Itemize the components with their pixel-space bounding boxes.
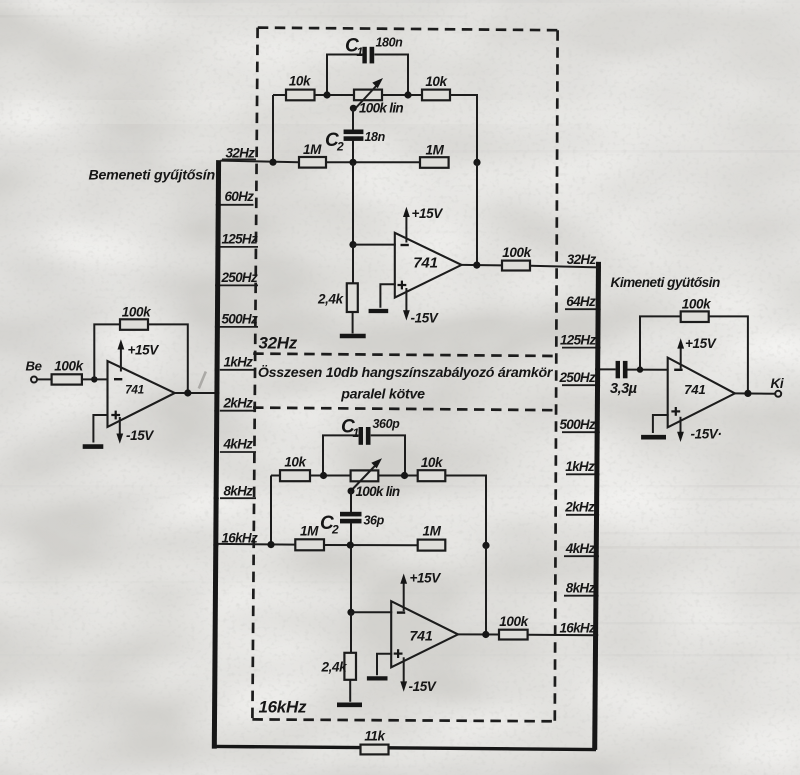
wire Be to R100k: [37, 378, 52, 380]
svg-text:Ki: Ki: [771, 376, 784, 391]
wire C2 to 1M row (16kHz): [350, 523, 352, 545]
svg-text:-15V: -15V: [126, 428, 154, 443]
wire 10k right to right riser: [450, 95, 477, 162]
wire pot row left: [273, 94, 286, 96]
wire output bus to C 3,3µ: [598, 368, 616, 370]
svg-text:2kHz: 2kHz: [223, 396, 254, 411]
wire feedback right riser to output node: [709, 316, 748, 393]
+15V supply arrow (16kHz): [400, 571, 441, 612]
node output bus at 3,3µ row: [595, 367, 600, 372]
node at inverting input: [91, 376, 97, 382]
output bus tap 32Hz: [567, 252, 601, 270]
svg-text:16kHz: 16kHz: [559, 621, 595, 636]
wire inverting node down to R 2,4k (16kHz): [350, 612, 352, 653]
svg-text:1M: 1M: [300, 524, 319, 539]
op-amp U4 741 (output buffer): [668, 358, 735, 428]
input bus tap 32Hz: [222, 146, 256, 161]
wire pot to 10k right: [382, 94, 422, 96]
ground (output buffer +in): [641, 435, 666, 440]
svg-text:1M: 1M: [426, 143, 445, 158]
dashed enclosure top edge: [258, 28, 558, 31]
svg-text:Összesen 10db hangszínszabályo: Összesen 10db hangszínszabályozó áramkör: [258, 364, 554, 381]
resistor R 1M (right, 32Hz): [420, 143, 449, 168]
dashed divider above 16kHz block: [253, 408, 556, 411]
svg-text:500Hz: 500Hz: [559, 417, 595, 432]
wire C1 loop left riser (16kHz): [323, 435, 359, 475]
stray pencil mark near input bus: [199, 372, 206, 389]
node output / right riser join (32Hz): [473, 262, 480, 269]
svg-text:Bemeneti gyűjtősín: Bemeneti gyűjtősín: [89, 168, 216, 184]
svg-text:2: 2: [331, 523, 339, 537]
op-amp U3 741 (16kHz): [391, 601, 458, 667]
svg-text:-15V: -15V: [411, 311, 439, 326]
wire right riser to op-amp output node: [476, 162, 478, 265]
svg-text:1M: 1M: [423, 524, 442, 539]
capacitor C 3,3µ: [610, 361, 638, 397]
resistor R 11k: [361, 729, 389, 755]
ground (16kHz 2,4k): [337, 702, 362, 707]
capacitor C2 18n (32Hz): [325, 108, 386, 153]
svg-text:+15V: +15V: [685, 336, 717, 351]
svg-text:+15V: +15V: [128, 343, 160, 358]
-15V supply arrow (16kHz): [400, 657, 437, 694]
input bus tap 125Hz: [215, 232, 258, 250]
svg-text:1kHz: 1kHz: [224, 355, 254, 370]
op-amp U2 741 (32Hz): [395, 233, 462, 298]
node inverting input (16kHz): [347, 609, 354, 616]
wire 2,4k to ground (16kHz): [349, 680, 351, 702]
op-amp U1 741 (input buffer): [108, 361, 175, 427]
output bus tap 64Hz: [565, 294, 601, 312]
+15V supply arrow (32Hz): [403, 206, 443, 243]
wire inverting node down to R 2,4k: [352, 245, 354, 284]
+15V supply arrow (output buffer): [677, 336, 716, 369]
input bus tap 60Hz: [216, 189, 254, 207]
svg-text:125Hz: 125Hz: [560, 333, 596, 348]
svg-text:32Hz: 32Hz: [567, 252, 597, 267]
node at output / feedback join: [184, 389, 191, 396]
svg-text:100k lin: 100k lin: [359, 101, 403, 116]
svg-text:250Hz: 250Hz: [221, 270, 258, 285]
wire op-amp output to Ki terminal: [735, 392, 776, 394]
node input bus at buffer output: [214, 390, 219, 395]
wire op-amp output to input bus: [175, 392, 218, 394]
resistor R 2,4k (32Hz): [317, 283, 358, 312]
wire op-amp output to R 100k (16kHz): [458, 633, 499, 635]
svg-text:100k lin: 100k lin: [356, 484, 400, 499]
resistor R 1M (left, 32Hz): [299, 142, 326, 168]
input bus tap 2kHz: [214, 396, 254, 414]
resistor R 10k (left, 16kHz): [280, 455, 310, 482]
wire non-inverting input to ground (output buffer): [653, 415, 669, 433]
node C1/pot right: [404, 91, 411, 98]
resistor R 10k (right, 16kHz): [418, 455, 446, 481]
svg-text:100k: 100k: [122, 305, 152, 320]
input bus tap 4kHz: [214, 437, 256, 455]
output bus tap 1kHz: [565, 459, 599, 477]
wire pot row left (16kHz): [271, 475, 280, 477]
input bus (thick vertical): [214, 160, 218, 748]
svg-text:10k: 10k: [425, 74, 448, 89]
svg-text:4kHz: 4kHz: [565, 541, 596, 556]
output bus tap 8kHz: [564, 581, 599, 599]
potentiometer P 100k lin (16kHz): [348, 458, 400, 499]
resistor R 100k (output feedback): [681, 297, 712, 323]
wire C2 node down to inverting input: [352, 162, 354, 244]
input terminal Be: [26, 359, 42, 383]
wire inverting node to op-amp (16kHz): [351, 611, 392, 613]
wire inverting node to op-amp: [353, 244, 396, 246]
wire C1 loop right riser: [374, 55, 408, 96]
potentiometer P 100k lin (32Hz): [350, 78, 404, 116]
node at inverting input (output buffer): [637, 366, 643, 372]
wire non-inverting input to ground: [93, 415, 108, 443]
output bus (thick vertical): [595, 262, 599, 750]
svg-text:1: 1: [357, 45, 364, 59]
resistor R 10k (left, 32Hz): [286, 74, 315, 101]
svg-text:2,4k: 2,4k: [321, 660, 349, 675]
wire 10k right to right riser (16kHz): [445, 476, 486, 546]
svg-text:741: 741: [409, 629, 432, 645]
dashed enclosure left edge: [252, 28, 257, 720]
dashed divider below 32Hz block: [253, 354, 556, 356]
svg-text:8kHz: 8kHz: [224, 484, 254, 499]
wire C2 to 1M row: [352, 140, 354, 162]
svg-text:360p: 360p: [373, 417, 401, 431]
output bus tap 4kHz: [564, 541, 599, 559]
svg-text:500Hz: 500Hz: [222, 312, 258, 327]
bottom rail right segment: [389, 748, 597, 750]
svg-text:741: 741: [413, 255, 437, 272]
wire 10k to pot (16kHz): [310, 475, 351, 477]
svg-text:8kHz: 8kHz: [566, 581, 596, 596]
wire 10k to pot: [315, 94, 355, 96]
node output / right riser join (16kHz): [482, 631, 489, 638]
svg-text:11k: 11k: [364, 729, 386, 744]
wire pot to 10k right (16kHz): [378, 475, 417, 477]
wire feedback right riser to output: [148, 324, 188, 393]
svg-text:60Hz: 60Hz: [225, 189, 255, 204]
svg-text:32Hz: 32Hz: [259, 334, 298, 353]
resistor R 100k (32Hz out): [502, 245, 533, 271]
svg-text:+15V: +15V: [412, 206, 444, 221]
svg-text:100k: 100k: [499, 614, 529, 629]
node inverting input (32Hz): [349, 241, 356, 248]
wire left riser pot row to 1M row: [272, 95, 274, 162]
-15V supply arrow (output buffer): [677, 417, 721, 442]
ground (32Hz 2,4k): [340, 334, 366, 339]
svg-text:100k: 100k: [54, 359, 84, 374]
node 32Hz tap riser join: [269, 159, 276, 166]
svg-text:2: 2: [336, 140, 344, 154]
node 1M right / right riser (16kHz): [482, 542, 489, 549]
node at output / feedback join (output buffer): [744, 390, 751, 397]
wire R100k to output bus 16kHz tap: [528, 634, 597, 637]
resistor R 100k (feedback): [120, 305, 152, 330]
svg-text:1kHz: 1kHz: [565, 459, 595, 474]
input bus tap 1kHz: [215, 355, 254, 373]
svg-text:100k: 100k: [502, 245, 532, 260]
ground (16kHz +in): [367, 676, 388, 680]
wire 2,4k to ground: [352, 312, 354, 333]
node C2 / 1M row (16kHz): [347, 542, 354, 549]
svg-text:64Hz: 64Hz: [566, 294, 596, 309]
svg-text:paralel kötve: paralel kötve: [340, 387, 425, 403]
input bus tap 16kHz: [213, 531, 258, 548]
svg-text:32Hz: 32Hz: [226, 146, 256, 161]
wire feedback left riser: [94, 324, 120, 379]
output bus tap 250Hz: [558, 370, 600, 388]
svg-text:18n: 18n: [365, 130, 386, 144]
input bus tap 8kHz: [214, 484, 256, 501]
input bus tap 250Hz: [215, 270, 258, 288]
svg-text:-15V·: -15V·: [691, 427, 722, 442]
wire non-inverting input to ground (32Hz): [380, 284, 395, 308]
svg-text:741: 741: [684, 382, 705, 397]
svg-text:100k: 100k: [682, 297, 712, 312]
resistor R 1M (left, 16kHz): [295, 524, 324, 551]
capacitor C1 360p: [341, 417, 400, 445]
svg-text:+15V: +15V: [410, 571, 442, 586]
svg-text:2,4k: 2,4k: [317, 292, 345, 307]
svg-text:16kHz: 16kHz: [259, 698, 307, 717]
output bus tap 2kHz: [564, 500, 599, 518]
wire input bus to 1M row (32Hz tap): [221, 161, 300, 163]
output bus tap 16kHz: [559, 621, 598, 638]
svg-text:2kHz: 2kHz: [564, 500, 595, 515]
dashed enclosure bottom edge: [252, 719, 554, 721]
wire C1 loop right riser (16kHz): [371, 435, 405, 475]
node 1M right / right riser: [473, 159, 480, 166]
output bus tap 500Hz: [559, 417, 599, 435]
svg-text:741: 741: [125, 383, 144, 397]
node 16kHz tap riser join: [267, 541, 274, 548]
svg-text:250Hz: 250Hz: [558, 370, 595, 385]
svg-text:Kimeneti gyütősin: Kimeneti gyütősin: [611, 275, 721, 290]
svg-text:Be: Be: [26, 359, 42, 374]
svg-text:36p: 36p: [364, 514, 385, 528]
ground (32Hz +in): [369, 309, 389, 313]
wire op-amp output to R 100k (32Hz): [462, 264, 503, 267]
wire left riser pot row to 1M row (16kHz): [270, 476, 272, 545]
node C1/pot left (16kHz): [320, 472, 327, 479]
wire 1M left to C2 node (16kHz): [324, 544, 418, 546]
input bus tap 500Hz: [215, 312, 258, 330]
resistor R 10k (right, 32Hz): [422, 74, 450, 100]
node C1/pot left: [323, 91, 330, 98]
svg-text:1: 1: [353, 426, 360, 440]
resistor R 100k (16kHz out): [499, 614, 530, 640]
wire 3,3µ to inverting input: [628, 369, 669, 371]
svg-text:3,3µ: 3,3µ: [610, 381, 638, 397]
-15V supply arrow (input buffer): [116, 417, 154, 444]
resistor R 100k (input): [52, 359, 85, 385]
wire R100k to inverting node: [82, 378, 109, 380]
node C1/pot right (16kHz): [401, 472, 408, 479]
wire 1M left to C2 node: [326, 161, 420, 163]
wire feedback left riser (output buffer): [640, 316, 681, 369]
wire C2 node down to inverting input (16kHz): [350, 545, 352, 612]
dashed enclosure right edge: [555, 30, 558, 721]
svg-text:-15V: -15V: [409, 679, 437, 694]
node C2 / 1M row: [349, 159, 356, 166]
-15V supply arrow (32Hz): [403, 288, 439, 326]
svg-text:10k: 10k: [421, 455, 444, 470]
wire right riser to op-amp output node (16kHz): [485, 545, 487, 634]
output terminal Ki: [771, 376, 784, 397]
resistor R 1M (right, 16kHz): [418, 524, 446, 551]
resistor R 2,4k (16kHz): [321, 653, 357, 680]
wire input bus to 1M row (16kHz tap): [218, 543, 295, 546]
svg-text:4kHz: 4kHz: [223, 437, 254, 452]
svg-text:10k: 10k: [284, 455, 307, 470]
svg-text:125Hz: 125Hz: [222, 232, 258, 247]
bottom rail left segment: [214, 746, 361, 747]
wire non-inverting input to ground (16kHz): [377, 654, 392, 676]
svg-text:10k: 10k: [289, 74, 312, 89]
wire C1 loop left riser: [327, 55, 363, 96]
ground (input buffer +in): [83, 444, 104, 449]
svg-text:180n: 180n: [376, 36, 404, 50]
wire R100k to output bus 32Hz tap: [530, 266, 599, 268]
svg-text:1M: 1M: [303, 142, 322, 157]
+15V supply arrow (input buffer): [118, 339, 160, 371]
capacitor C2 36p (16kHz): [320, 491, 385, 537]
output bus tap 125Hz: [560, 333, 600, 351]
capacitor C1 180n: [345, 36, 403, 64]
